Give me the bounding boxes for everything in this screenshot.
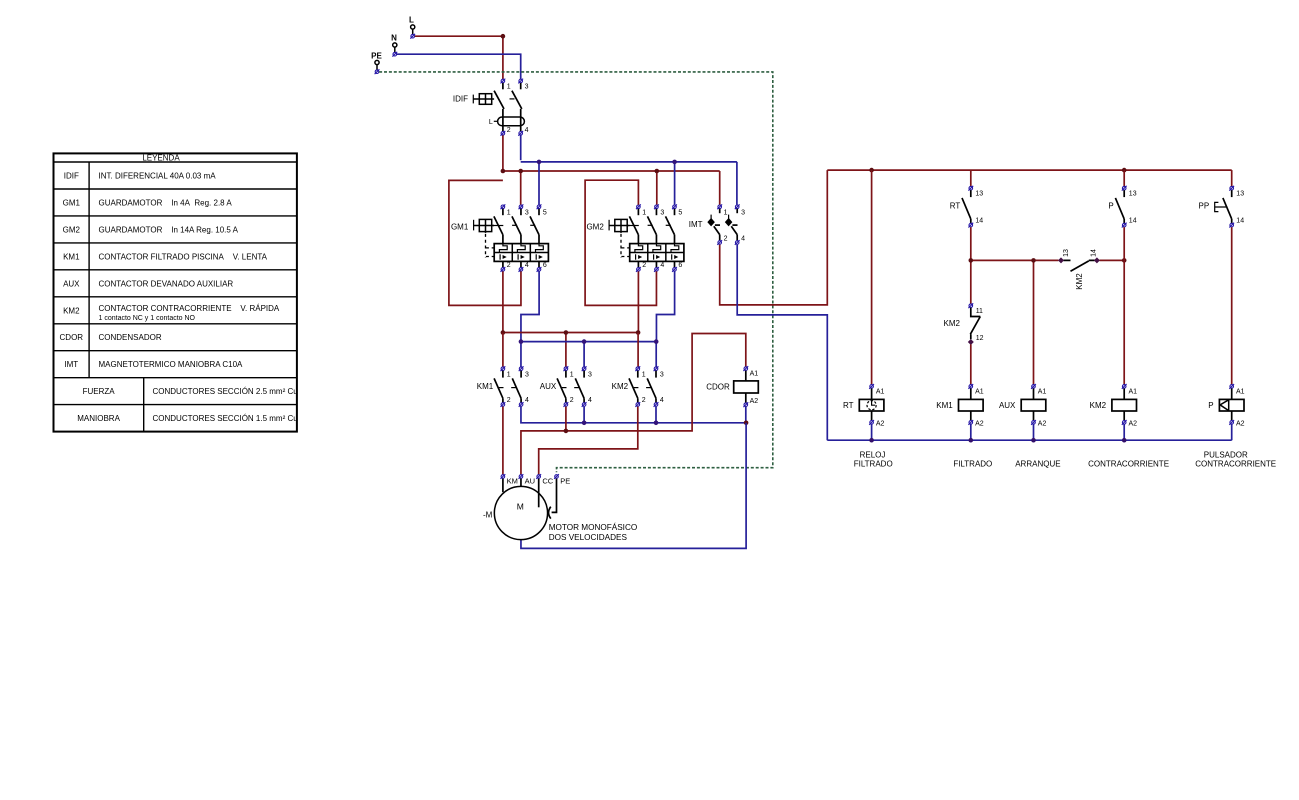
svg-text:A1: A1 <box>1236 389 1245 396</box>
svg-text:1: 1 <box>570 371 574 378</box>
wire P contact feed <box>1123 170 1125 186</box>
svg-text:14: 14 <box>1129 218 1137 225</box>
wire KM2-12 to KM1 coil <box>970 344 972 384</box>
svg-text:KM2: KM2 <box>63 306 80 315</box>
wire coil A2 drops <box>872 425 1232 441</box>
svg-text:AUX: AUX <box>999 401 1016 410</box>
coil AUX <box>999 384 1047 427</box>
svg-text:CONDENSADOR: CONDENSADOR <box>99 333 162 342</box>
svg-text:KM1: KM1 <box>63 252 80 261</box>
coil KM2 <box>1090 384 1138 427</box>
coil RT timer <box>843 384 885 427</box>
wire RT coil feed <box>871 170 873 384</box>
svg-text:1: 1 <box>642 209 646 216</box>
svg-text:GUARDAMOTOR In 14A Reg. 10.: GUARDAMOTOR In 14A Reg. 10.5 A <box>99 225 239 234</box>
wire KM2-2 to motor CC <box>539 407 638 475</box>
svg-text:CDOR: CDOR <box>60 333 84 342</box>
svg-text:A2: A2 <box>1129 420 1138 427</box>
svg-text:A1: A1 <box>876 389 885 396</box>
svg-text:RT: RT <box>843 401 854 410</box>
svg-text:11: 11 <box>976 308 983 315</box>
wire IDIF-2 to bus <box>502 135 504 169</box>
svg-text:P: P <box>1108 202 1113 211</box>
svg-text:1: 1 <box>507 84 511 91</box>
wire KM1-4 blue lower bus <box>521 407 746 423</box>
svg-text:4: 4 <box>741 235 745 242</box>
svg-text:CONDUCTORES SECCIÓN 1.5 mm² Cu: CONDUCTORES SECCIÓN 1.5 mm² Cu <box>153 414 298 423</box>
svg-text:3: 3 <box>741 209 745 216</box>
svg-text:P: P <box>1208 401 1213 410</box>
wire motor bottom blue <box>521 423 746 549</box>
wire KM1-2 to motor <box>502 407 504 475</box>
svg-text:KM1: KM1 <box>936 401 953 410</box>
wire N neutral <box>397 54 521 79</box>
wire PE green dashed <box>379 72 773 472</box>
label motor description <box>549 522 638 542</box>
wire RT contact feed <box>970 170 972 186</box>
pushbutton PP <box>1199 186 1245 228</box>
svg-text:INT. DIFERENCIAL 40A 0.03 mA: INT. DIFERENCIAL 40A 0.03 mA <box>99 171 217 180</box>
wire control top rail <box>827 169 1231 171</box>
svg-text:IMT: IMT <box>689 220 703 229</box>
svg-text:CONTACTOR DEVANADO AUXILIAR: CONTACTOR DEVANADO AUXILIAR <box>99 279 234 288</box>
svg-text:L: L <box>409 15 414 24</box>
svg-text:KM2: KM2 <box>1090 401 1107 410</box>
svg-text:KM: KM <box>507 477 518 486</box>
svg-text:2: 2 <box>570 397 574 404</box>
svg-text:FILTRADO: FILTRADO <box>854 460 893 469</box>
terminal L <box>409 15 415 38</box>
svg-text:4: 4 <box>525 127 529 134</box>
svg-text:FILTRADO: FILTRADO <box>953 460 992 469</box>
svg-text:CONTRACORRIENTE: CONTRACORRIENTE <box>1195 460 1276 469</box>
contact AUX power <box>540 366 592 407</box>
svg-text:13: 13 <box>975 191 983 198</box>
svg-text:ARRANQUE: ARRANQUE <box>1015 460 1060 469</box>
svg-text:6: 6 <box>543 262 547 269</box>
wire control bottom rail <box>827 439 1231 441</box>
svg-text:A2: A2 <box>975 420 984 427</box>
wire GM1-6 output <box>521 271 539 341</box>
wire PP-14 to P coil <box>1231 227 1233 384</box>
contact KM1 power <box>477 366 529 407</box>
svg-text:A2: A2 <box>750 398 759 405</box>
svg-text:CONDUCTORES SECCIÓN 2.5 mm² Cu: CONDUCTORES SECCIÓN 2.5 mm² Cu <box>153 387 298 396</box>
svg-text:KM1: KM1 <box>477 382 494 391</box>
label RELOJ FILTRADO <box>854 450 893 468</box>
svg-text:3: 3 <box>525 84 529 91</box>
svg-text:M: M <box>517 502 524 512</box>
wire GM2 bypass loop <box>585 180 656 305</box>
svg-text:PE: PE <box>371 52 382 61</box>
svg-text:PULSADOR: PULSADOR <box>1204 450 1248 459</box>
contact P NO <box>1108 186 1136 228</box>
wire neutral bus 2 <box>521 342 656 367</box>
wire GM1 bypass loop <box>449 180 521 305</box>
svg-text:IDIF: IDIF <box>453 94 468 103</box>
svg-text:CDOR: CDOR <box>706 383 730 392</box>
terminal N <box>391 34 397 57</box>
svg-text:IDIF: IDIF <box>64 171 79 180</box>
svg-text:A2: A2 <box>1038 420 1047 427</box>
svg-text:3: 3 <box>660 209 664 216</box>
node bottom rail junctions <box>869 438 1126 443</box>
svg-text:N: N <box>391 34 397 43</box>
svg-text:2: 2 <box>507 127 511 134</box>
svg-text:1 contacto NC y 1 contacto NO: 1 contacto NC y 1 contacto NO <box>99 315 196 322</box>
wire L phase <box>415 36 503 79</box>
wire GM2-6 output <box>656 271 674 341</box>
svg-text:2: 2 <box>507 397 511 404</box>
svg-text:CC: CC <box>542 477 553 486</box>
svg-text:2: 2 <box>507 262 511 269</box>
svg-text:A1: A1 <box>1038 389 1047 396</box>
wire AUX-2 to motor AU and CDOR <box>521 334 746 475</box>
node CDOR junction <box>744 421 749 426</box>
svg-text:PE: PE <box>560 477 570 486</box>
svg-text:CONTACTOR FILTRADO PISCINA: CONTACTOR FILTRADO PISCINA V. LENTA <box>99 252 268 261</box>
svg-text:RT: RT <box>950 202 961 211</box>
svg-text:AUX: AUX <box>63 279 80 288</box>
breaker IDIF <box>453 79 529 136</box>
svg-text:3: 3 <box>525 209 529 216</box>
svg-text:3: 3 <box>588 371 592 378</box>
svg-text:14: 14 <box>1090 249 1097 257</box>
svg-text:L: L <box>489 119 493 126</box>
svg-text:12: 12 <box>976 335 984 342</box>
svg-text:14: 14 <box>1236 218 1244 225</box>
svg-text:4: 4 <box>525 397 529 404</box>
contact KM2 NC <box>944 303 984 345</box>
motor M terminals <box>501 474 571 486</box>
wire GM2-2 output <box>637 271 639 332</box>
svg-text:GM1: GM1 <box>63 198 81 207</box>
wire GM1-2 output <box>502 271 504 332</box>
node phase bus junctions <box>501 169 659 174</box>
wire phase bus <box>503 171 720 205</box>
wire PP contact feed <box>1231 170 1233 186</box>
wire phase bus 2 <box>503 333 638 367</box>
svg-text:A2: A2 <box>1236 420 1245 427</box>
svg-text:2: 2 <box>642 397 646 404</box>
capacitor CDOR <box>706 366 758 407</box>
svg-text:3: 3 <box>525 371 529 378</box>
svg-text:-M: -M <box>483 510 493 519</box>
wire P-14 to KM2 coil <box>1123 227 1125 384</box>
svg-text:A1: A1 <box>750 370 759 377</box>
node junction row dots <box>969 258 1127 263</box>
wire RT-14 down <box>970 227 972 303</box>
guardamotor GM1 <box>451 204 548 271</box>
coil P <box>1208 384 1244 427</box>
coil KM1 <box>936 384 984 427</box>
node neutral bus junctions <box>537 160 677 165</box>
svg-text:3: 3 <box>660 371 664 378</box>
svg-text:AUX: AUX <box>540 382 557 391</box>
svg-text:A2: A2 <box>876 420 885 427</box>
svg-text:IMT: IMT <box>64 360 78 369</box>
node neutral bus 2 junctions <box>519 339 659 344</box>
svg-text:4: 4 <box>525 262 529 269</box>
svg-text:CONTRACORRIENTE: CONTRACORRIENTE <box>1088 460 1169 469</box>
svg-text:MANIOBRA: MANIOBRA <box>77 414 120 423</box>
wire IMT-4 to control <box>737 245 827 441</box>
svg-text:1: 1 <box>642 371 646 378</box>
guardamotor GM2 <box>586 204 683 271</box>
terminal PE <box>371 52 382 75</box>
svg-text:A1: A1 <box>1129 389 1138 396</box>
svg-text:6: 6 <box>678 262 682 269</box>
wire IDIF-4 to bus <box>520 135 522 160</box>
motor M <box>483 479 557 540</box>
svg-text:4: 4 <box>588 397 592 404</box>
svg-text:5: 5 <box>678 209 682 216</box>
svg-text:MOTOR MONOFÁSICO: MOTOR MONOFÁSICO <box>549 522 638 532</box>
node top rail junctions <box>869 168 1126 173</box>
svg-text:1: 1 <box>507 209 511 216</box>
svg-text:1: 1 <box>724 209 728 216</box>
svg-text:A1: A1 <box>975 389 984 396</box>
svg-text:4: 4 <box>660 397 664 404</box>
svg-text:PP: PP <box>1199 202 1210 211</box>
svg-text:MAGNETOTERMICO MANIOBRA C10A: MAGNETOTERMICO MANIOBRA C10A <box>99 360 244 369</box>
node blue lower bus junctions <box>582 421 659 426</box>
svg-text:RELOJ: RELOJ <box>860 450 886 459</box>
svg-text:13: 13 <box>1129 191 1137 198</box>
node AUX-2 junction <box>564 429 569 434</box>
label PULSADOR CONTRACORRIENTE <box>1195 450 1276 468</box>
wire IMT-2 to control <box>720 170 828 305</box>
svg-text:AU: AU <box>525 477 535 486</box>
svg-text:4: 4 <box>660 262 664 269</box>
contact KM2 power <box>612 366 664 407</box>
svg-text:1: 1 <box>507 371 511 378</box>
svg-text:13: 13 <box>1236 191 1244 198</box>
wire neutral bus <box>521 162 737 205</box>
svg-text:KM2: KM2 <box>612 382 629 391</box>
svg-text:KM2: KM2 <box>944 319 961 328</box>
svg-text:2: 2 <box>642 262 646 269</box>
contact KM2 aux NO horizontal <box>1058 249 1100 290</box>
wire CDOR A2 down <box>745 407 747 423</box>
svg-text:GM2: GM2 <box>586 222 604 231</box>
wire control junction row <box>971 260 1124 384</box>
svg-text:5: 5 <box>543 209 547 216</box>
node phase bus 2 junctions <box>501 330 641 335</box>
svg-text:LEYENDA: LEYENDA <box>142 153 180 162</box>
svg-text:2: 2 <box>724 235 728 242</box>
svg-text:KM2: KM2 <box>1075 273 1084 290</box>
contact RT timer NO <box>950 186 984 228</box>
svg-text:GUARDAMOTOR In 4A Reg. 2.8: GUARDAMOTOR In 4A Reg. 2.8 A <box>99 198 233 207</box>
wire GM1-2 to KM1-1 <box>503 333 638 367</box>
svg-text:14: 14 <box>975 218 983 225</box>
svg-text:DOS VELOCIDADES: DOS VELOCIDADES <box>549 533 628 542</box>
legend table LEYENDA <box>54 153 298 431</box>
svg-text:GM1: GM1 <box>451 222 469 231</box>
breaker IMT <box>689 204 745 245</box>
svg-text:GM2: GM2 <box>63 225 81 234</box>
svg-text:13: 13 <box>1063 249 1070 257</box>
node L corner junction <box>501 34 506 39</box>
svg-text:CONTACTOR CONTRACORRIENTE V: CONTACTOR CONTRACORRIENTE V. RÁPIDA <box>99 304 280 313</box>
svg-text:FUERZA: FUERZA <box>83 387 116 396</box>
